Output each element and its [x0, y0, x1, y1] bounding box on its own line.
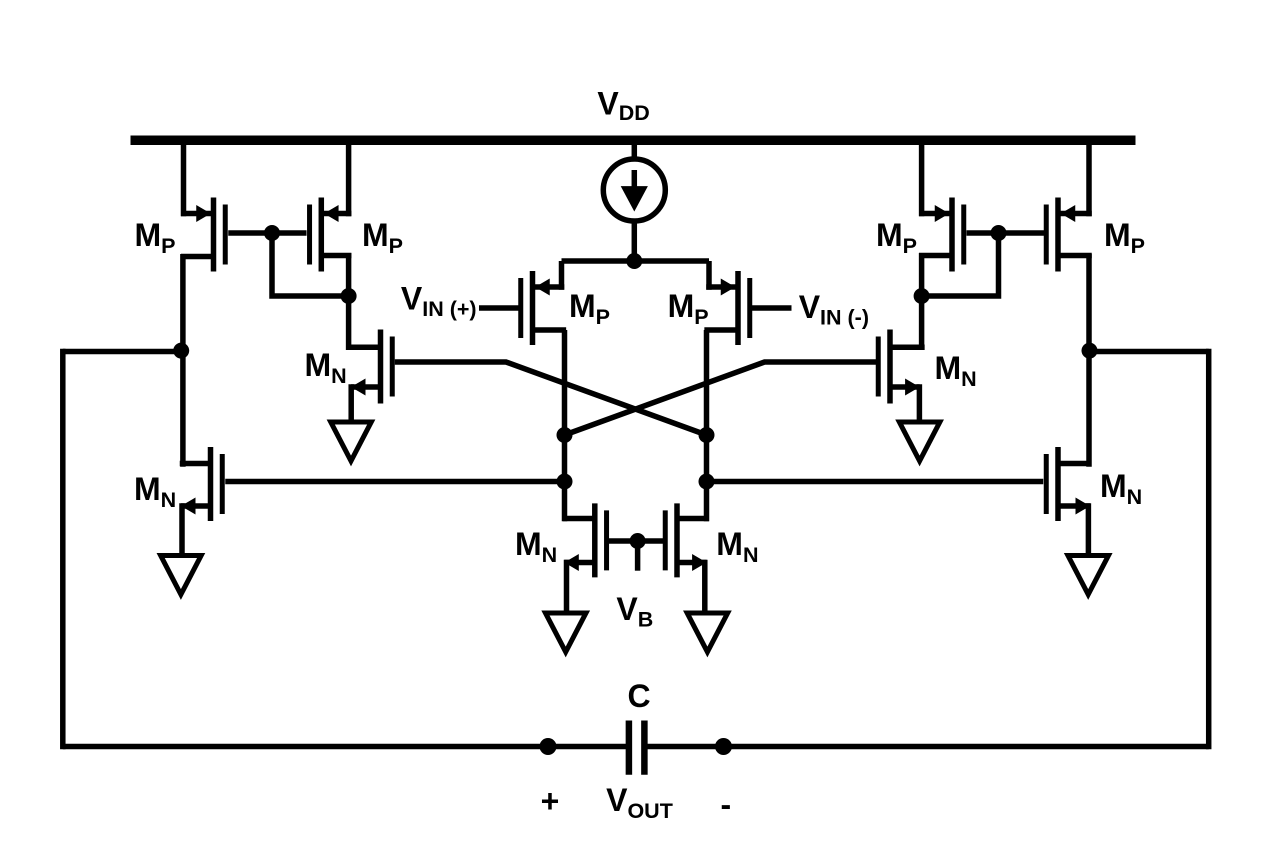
wire MN2 source down: [917, 384, 923, 424]
svg-text:MP: MP: [876, 217, 917, 258]
ground (MN6 source): [687, 613, 728, 652]
wire MN1 gate cross to right node: [395, 362, 707, 435]
ground (MN5 source): [545, 613, 586, 652]
wire MN3 source down: [179, 503, 185, 557]
wire MP5 drain down: [919, 253, 925, 350]
wire MP4 gate to VIN-: [752, 305, 792, 311]
svg-text:VOUT: VOUT: [606, 782, 673, 823]
junction MP2 drain node: [341, 288, 357, 304]
svg-text:-: -: [720, 787, 731, 823]
svg-text:VB: VB: [616, 591, 653, 632]
wire MN5-MN6 gate: [609, 538, 663, 544]
junction MP1-MP2 gate node: [264, 225, 280, 241]
junction cross node right: [699, 427, 715, 443]
ground (MN3 source): [161, 556, 202, 595]
wire MP6 drain down: [1086, 254, 1092, 467]
wire MP1 drain down: [180, 254, 186, 467]
svg-text:MP: MP: [1104, 217, 1145, 258]
transistor MP3 (input +): [521, 271, 566, 345]
svg-text:MP: MP: [135, 217, 176, 258]
wire current source to tail node: [632, 220, 638, 264]
svg-text:MN: MN: [134, 471, 176, 512]
junction MN4 gate node: [699, 474, 715, 490]
svg-text:MN: MN: [305, 347, 347, 388]
svg-text:MN: MN: [515, 526, 557, 567]
junction MP5 drain node: [914, 288, 930, 304]
transistor MP1: [181, 198, 225, 272]
transistor MP6: [1046, 198, 1092, 272]
transistor MN3 (lower left): [180, 447, 223, 521]
wire MP1-MP2 gate: [228, 230, 306, 236]
ground (MN2 source): [899, 422, 940, 461]
junction output node left: [173, 343, 189, 359]
wire VDD to current source: [632, 145, 638, 160]
wire output left vertical: [60, 349, 66, 750]
wire VDD to MP6 source: [1086, 145, 1092, 216]
capacitor C: [629, 721, 645, 775]
wire output bottom right: [644, 744, 1208, 750]
svg-text:MP: MP: [668, 288, 709, 329]
junction VB gate node: [630, 533, 646, 549]
svg-text:MN: MN: [1100, 468, 1142, 509]
wire output left horizontal: [63, 349, 183, 355]
svg-text:+: +: [541, 783, 560, 819]
wire MP5-MP6 gate: [967, 230, 1045, 236]
transistor MP5: [919, 198, 964, 272]
wire VDD to MP2 source: [346, 145, 352, 216]
transistor MN4 (lower right): [1046, 447, 1091, 521]
svg-text:VIN (-): VIN (-): [799, 289, 869, 330]
ground (MN4 source): [1068, 556, 1109, 595]
VDD power rail: [131, 136, 1136, 146]
junction capacitor left node: [540, 738, 557, 755]
junction tail node: [626, 253, 642, 269]
wire MP4 drain down: [704, 330, 710, 521]
wire MN4 source down: [1086, 503, 1092, 557]
svg-text:MP: MP: [569, 288, 610, 329]
wire tail node horizontal: [562, 258, 710, 264]
svg-text:VIN (+): VIN (+): [401, 280, 477, 321]
transistor MN2 (upper right): [878, 330, 924, 404]
wire tail to MP3 source: [559, 261, 565, 290]
current source I1: [603, 159, 665, 221]
wire VIN+ to MP3 gate: [479, 305, 519, 311]
wire output right vertical: [1206, 349, 1212, 750]
svg-text:VDD: VDD: [597, 85, 649, 125]
wire MN5 source down: [564, 560, 570, 615]
wire MN1 source down: [348, 384, 354, 424]
transistor MP4 (input -): [704, 271, 749, 345]
junction MN3 gate node: [557, 474, 573, 490]
wire MN2 gate cross to left node: [565, 362, 877, 435]
wire gate-drain tie right mirror: [922, 233, 999, 296]
ground (MN1 source): [331, 422, 372, 461]
wire VDD to MP1 source: [181, 145, 187, 216]
junction capacitor right node: [715, 738, 732, 755]
wire MN4 gate rail: [707, 479, 1044, 485]
transistor MP2: [310, 198, 352, 272]
wire MN6 source down: [702, 560, 708, 615]
wire MP2 drain down: [346, 253, 352, 350]
transistor MN6 (bottom right): [665, 503, 709, 577]
wire MN3 gate rail: [225, 479, 564, 485]
svg-text:C: C: [628, 678, 651, 714]
junction output node right: [1082, 343, 1098, 359]
wire VDD to MP5 source: [919, 145, 925, 216]
junction MP5-MP6 gate node: [991, 225, 1007, 241]
wire VB stub: [635, 541, 641, 571]
transistor MN1 (upper left): [346, 330, 392, 404]
junction cross node left: [557, 427, 573, 443]
wire output right horizontal: [1089, 349, 1209, 355]
wire gate-drain tie left mirror: [272, 233, 349, 296]
svg-text:MN: MN: [716, 526, 758, 567]
wire tail to MP4 source: [706, 261, 712, 290]
wire MP3 drain down: [562, 330, 568, 521]
wire output bottom left: [63, 744, 629, 750]
transistor MN5 (bottom left): [563, 503, 607, 577]
svg-text:MP: MP: [362, 217, 403, 258]
svg-text:MN: MN: [935, 350, 977, 391]
